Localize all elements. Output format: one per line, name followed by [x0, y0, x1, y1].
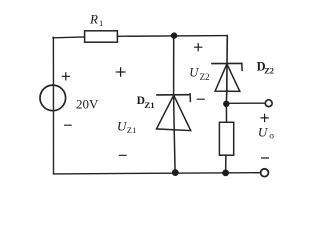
plus sign UZ1	[116, 68, 125, 77]
svg-text:Z1: Z1	[127, 125, 137, 135]
wire top right segment	[117, 35, 227, 38]
svg-text:o: o	[269, 131, 274, 141]
wire DZ1 branch through diode	[174, 36, 176, 173]
wire node to load resistor	[225, 104, 227, 123]
node junction DZ2 / load	[223, 101, 229, 107]
wire left vertical	[52, 37, 54, 174]
zener diode DZ1 cathode bar	[157, 94, 189, 96]
wire node to output top terminal	[226, 102, 265, 104]
svg-text:Z1: Z1	[144, 100, 154, 110]
voltage source 20V	[40, 85, 66, 111]
wire load resistor to bottom	[225, 155, 227, 173]
svg-text:1: 1	[99, 18, 103, 28]
node junction bottom load	[222, 170, 229, 177]
svg-text:U: U	[258, 125, 269, 140]
zener diode DZ1 triangle	[157, 95, 191, 130]
svg-text:20V: 20V	[76, 96, 99, 111]
node junction top (R1 / DZ1)	[171, 32, 177, 38]
plus sign Uo	[261, 114, 268, 121]
zener diode DZ2 cathode tick	[241, 63, 243, 70]
wire top left segment	[53, 36, 85, 39]
svg-text:U: U	[189, 66, 199, 80]
svg-text:Z2: Z2	[200, 72, 210, 82]
wire DZ2 branch through diode	[226, 36, 227, 104]
wire bottom	[54, 173, 261, 174]
zener diode DZ2 cathode bar	[212, 62, 242, 64]
terminal output bottom	[261, 169, 269, 177]
resistor R1	[85, 31, 118, 42]
zener diode DZ2 triangle	[215, 64, 240, 92]
minus sign source	[65, 124, 72, 126]
plus sign UZ2	[195, 44, 202, 51]
svg-text:Z2: Z2	[264, 66, 274, 75]
minus sign UZ2	[197, 98, 204, 100]
resistor RL	[219, 122, 233, 155]
svg-text:R: R	[89, 11, 98, 26]
plus sign source	[62, 73, 69, 80]
node junction bottom DZ1	[172, 169, 179, 176]
minus sign UZ1	[119, 154, 126, 156]
zener diode DZ1 cathode tick	[189, 94, 191, 102]
minus sign Uo	[262, 157, 269, 159]
terminal output top	[265, 100, 272, 107]
